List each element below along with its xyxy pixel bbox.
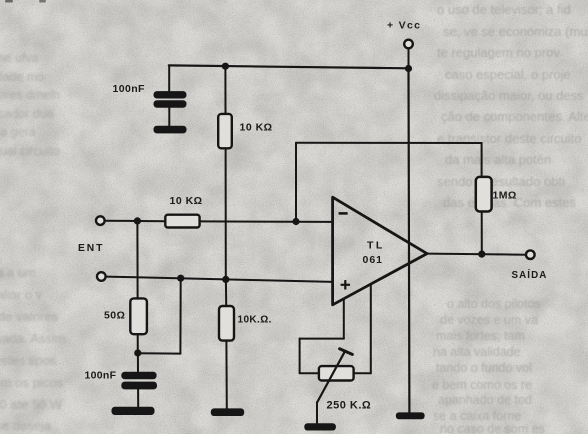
op-amp inverting input minus sign [339, 212, 348, 215]
ground bar under C2 [112, 407, 155, 415]
resistor R1 10K body [218, 114, 232, 148]
node: junction R4 / C2 [134, 349, 141, 356]
faint bleed-through text right column [434, 2, 588, 210]
node: junction output / R3 [478, 251, 485, 258]
terminal: ENT upper open circle [96, 216, 105, 225]
svg-text:te regulagem no prov: te regulagem no prov [437, 45, 560, 60]
capacitor C2 100nF bottom plate [121, 382, 157, 390]
node: junction Vcc / rail [405, 65, 412, 72]
ground bar under R5 [211, 408, 244, 416]
wire: up to lower input line [179, 278, 181, 353]
svg-text:10 KΩ: 10 KΩ [240, 122, 273, 134]
svg-text:o alto dos pilotos: o alto dos pilotos [447, 297, 541, 311]
svg-text:dor; tem os picos: dor; tem os picos [0, 375, 63, 390]
op-amp U1 TL061 triangle [333, 197, 427, 305]
svg-text:tando o fundo vol: tando o fundo vol [436, 361, 532, 375]
svg-text:mais fortes; tam: mais fortes; tam [436, 329, 525, 343]
svg-text:caso especial, o proje: caso especial, o proje [445, 67, 571, 82]
wire: non-inverting node down to resistor R5 [225, 280, 227, 305]
capacitor C1 100nF bottom plate [154, 100, 187, 107]
svg-text:10 KΩ: 10 KΩ [170, 195, 203, 207]
node: junction ENT / R4 [134, 217, 141, 224]
wire: long vertical from Vcc rail to bottom ground [407, 69, 410, 413]
resistor R2 10K horizontal body [165, 215, 199, 228]
wire: C1 lower plate to ground [168, 107, 170, 126]
svg-text:se a caixa forne: se a caixa forne [433, 409, 521, 423]
svg-text:de vozes e um va: de vozes e um va [440, 313, 538, 327]
wire: plus node down from op-amp underside [343, 299, 345, 339]
faint bleed-through text left column top [0, 51, 60, 158]
wire: R4 bottom to junction [137, 334, 139, 353]
svg-text:ENT: ENT [78, 243, 104, 254]
wire: op-amp output to SAIDA terminal [427, 254, 526, 255]
wire: R2 to op-amp inverting input [199, 220, 332, 223]
node: junction rail / R1 [222, 63, 229, 70]
ground bar under long Vcc line [396, 412, 425, 419]
wire: rail down to capacitor C1 [168, 66, 170, 92]
capacitor C2 100nF top plate [121, 372, 156, 380]
terminal: SAIDA open circle [526, 250, 535, 259]
resistor R5 10K body [219, 306, 234, 341]
wire: feedback horizontal to 1M resistor [296, 142, 482, 144]
svg-text:sendo o resultado obti: sendo o resultado obti [437, 174, 565, 189]
svg-text:adequada. Assim: adequada. Assim [0, 331, 66, 346]
svg-text:amplificador dua: amplificador dua [0, 107, 54, 121]
svg-text:da mais alta potên: da mais alta potên [445, 152, 551, 167]
wire: Vcc terminal to top rail [408, 48, 410, 68]
wire: pot right up to op-amp underside [370, 285, 372, 373]
resistor R3 1M body [476, 177, 492, 212]
svg-text:chega a um: chega a um [0, 265, 36, 280]
capacitor C1 100nF top plate [154, 91, 187, 98]
wire: upper junction down to resistor R4 [136, 221, 138, 299]
svg-text:TL: TL [367, 240, 385, 252]
terminal: +Vcc open circle [404, 40, 413, 49]
svg-text:100nF: 100nF [113, 83, 146, 95]
ground bar under pot wiper [304, 423, 336, 430]
svg-text:apanhado de tod: apanhado de tod [438, 393, 532, 407]
svg-text:transistores dmelh: transistores dmelh [0, 88, 60, 102]
node: junction lower line / divider [222, 276, 229, 283]
wire: lower input line to op-amp plus input [106, 277, 333, 282]
svg-text:SAÍDA: SAÍDA [512, 269, 548, 281]
svg-text:061: 061 [363, 254, 384, 266]
svg-text:+ Vcc: + Vcc [387, 20, 421, 32]
svg-text:1MΩ: 1MΩ [493, 190, 517, 202]
ground bar under C1 [154, 126, 187, 134]
svg-text:compone ufva: compone ufva [0, 51, 39, 65]
wire: junction right toward lower line [138, 352, 181, 354]
svg-text:20 30 ate 50 W: 20 30 ate 50 W [0, 397, 63, 412]
svg-text:ção de componentes. Alte: ção de componentes. Alte [441, 109, 588, 124]
svg-text:na alta validade: na alta validade [433, 345, 521, 359]
small ink marks at top edge [5, 0, 13, 3]
wire: pot right lead [354, 372, 371, 374]
svg-text:ndo se deseja: ndo se deseja [0, 418, 52, 433]
svg-text:polaridade mo: polaridade mo [0, 70, 44, 84]
svg-text:250 K.Ω: 250 K.Ω [327, 400, 372, 412]
wire: top supply rail [169, 65, 409, 68]
wire: feedback vertical from inverting node up [295, 143, 297, 222]
faint bleed-through text bottom-right block [432, 297, 545, 434]
svg-text:10K.Ω.: 10K.Ω. [238, 315, 272, 326]
svg-text:com estes tipos: com estes tipos [0, 353, 57, 368]
wire: R1 bottom down to non-inverting node (crosses inverting wire) [225, 148, 227, 280]
svg-text:100nF: 100nF [85, 369, 117, 381]
wire: rail down to resistor R1 [224, 66, 226, 114]
node: junction lower line / ground path [177, 275, 184, 282]
op-amp non-inverting input plus sign [341, 280, 350, 289]
svg-text:sinal qual circuito: sinal qual circuito [0, 144, 60, 158]
wire: R5 bottom to ground [225, 340, 227, 409]
svg-text:e bem como os re: e bem como os re [432, 378, 532, 392]
potentiometer R6 250K body [319, 366, 354, 380]
svg-text:dissipação maior, ou dess: dissipação maior, ou dess [434, 88, 584, 103]
svg-text:a avaliar o v: a avaliar o v [0, 287, 43, 302]
wire: C2 lower plate to ground [137, 388, 139, 407]
wire: jog left above potentiometer [300, 338, 344, 340]
faint bleed-through text left column bottom [0, 265, 66, 433]
svg-text:o uso de televisor; a fid: o uso de televisor; a fid [437, 2, 571, 17]
wire: wiper down to ground [316, 403, 318, 424]
svg-text:ntes de valores: ntes de valores [0, 309, 59, 324]
wire: pot wiper crossbar [340, 349, 353, 355]
wire: feedback down to R3 top [481, 143, 483, 177]
wire: pot wiper diagonal arm [317, 351, 345, 403]
wire: junction down to capacitor C2 [137, 353, 139, 372]
terminal: ENT lower open circle [97, 272, 106, 281]
svg-text:no caso de som es: no caso de som es [440, 422, 545, 434]
svg-text:se, ve se economiza (mui): se, ve se economiza (mui) [443, 24, 588, 39]
node: junction inverting input / feedback [292, 218, 299, 225]
resistor R4 50 ohm body [130, 298, 147, 334]
svg-text:50Ω: 50Ω [104, 310, 125, 322]
wire: pot left lead [300, 372, 319, 374]
wire: R3 bottom down to output line [481, 211, 483, 254]
wire: down to pot left terminal [299, 339, 301, 374]
wire: ENT terminal to R2 [105, 220, 166, 223]
svg-text:potência gera: potência gera [0, 125, 36, 139]
